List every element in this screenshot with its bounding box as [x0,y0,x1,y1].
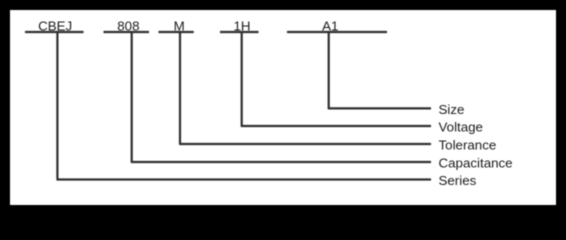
white panel [10,10,556,205]
svg-text:Tolerance: Tolerance [439,137,497,152]
wire Size vertical [328,32,330,108]
wire Capacitance horizontal [131,161,431,163]
underline segment CBEJ [25,31,84,33]
wire Voltage horizontal [241,125,431,127]
underline segment 808 [104,31,150,33]
underline segment M [159,31,194,33]
wire Tolerance horizontal [179,143,431,145]
svg-text:808: 808 [117,19,139,34]
wire Capacitance vertical [131,32,133,162]
svg-text:CBEJ: CBEJ [38,19,72,34]
svg-text:Size: Size [439,102,465,117]
wire Tolerance vertical [179,32,181,144]
underline segment A1 [287,31,387,33]
svg-text:M: M [174,19,185,34]
svg-text:Voltage: Voltage [439,119,483,134]
wire Series vertical [56,32,58,180]
wire Series horizontal [57,178,432,180]
svg-text:1H: 1H [233,19,250,34]
wire Voltage vertical [241,32,243,126]
wire Size horizontal [328,107,431,109]
svg-text:A1: A1 [322,19,338,34]
underline segment 1H [220,31,259,33]
svg-text:Series: Series [439,173,477,188]
svg-text:Capacitance: Capacitance [439,155,513,170]
